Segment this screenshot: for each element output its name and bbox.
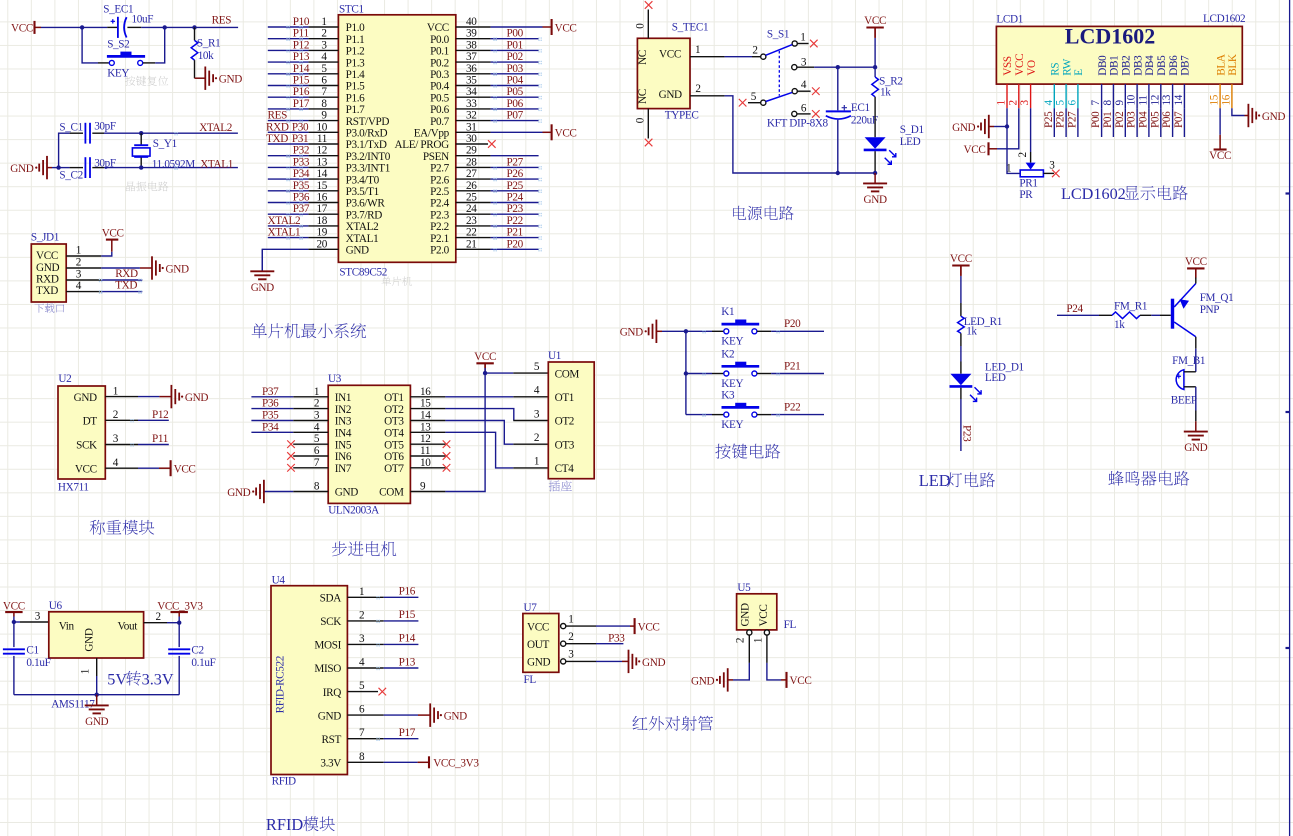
svg-text:1: 1 bbox=[534, 456, 540, 468]
node junction stepper VCC bbox=[483, 371, 487, 375]
svg-text:GND: GND bbox=[527, 657, 550, 669]
svg-text:35: 35 bbox=[466, 75, 477, 87]
svg-text:OT2: OT2 bbox=[555, 416, 574, 428]
svg-text:P20: P20 bbox=[507, 238, 524, 250]
svg-text:P16: P16 bbox=[399, 586, 416, 598]
svg-text:14: 14 bbox=[317, 168, 328, 180]
svg-text:9: 9 bbox=[321, 110, 327, 122]
svg-text:P04: P04 bbox=[1137, 111, 1149, 128]
svg-text:P25: P25 bbox=[1043, 111, 1055, 128]
label 单片机最小系统 (MCU minimum system) bbox=[252, 323, 267, 338]
svg-text:EC1: EC1 bbox=[851, 102, 870, 114]
svg-text:U1: U1 bbox=[548, 350, 561, 362]
capacitor C2 0.1uF bbox=[178, 623, 180, 647]
svg-text:VCC: VCC bbox=[75, 463, 97, 475]
ground GND (MCU pin20) bbox=[261, 249, 263, 271]
svg-text:GND: GND bbox=[1262, 111, 1285, 123]
svg-text:6: 6 bbox=[359, 704, 365, 716]
svg-text:FM_Q1: FM_Q1 bbox=[1200, 292, 1234, 304]
svg-text:P3.2/INT0: P3.2/INT0 bbox=[346, 151, 391, 163]
svg-text:XTAL1: XTAL1 bbox=[268, 227, 301, 239]
wire LCD pin 6 net P27 bbox=[1077, 108, 1079, 137]
svg-text:ALE/ PROG: ALE/ PROG bbox=[395, 139, 450, 151]
svg-text:P06: P06 bbox=[1161, 111, 1173, 128]
svg-text:4: 4 bbox=[534, 385, 540, 397]
wire K3 net P22 bbox=[757, 414, 771, 416]
wire S_C1 to XTAL2 node bbox=[92, 132, 104, 134]
label 电源电路 (power circuit) bbox=[733, 206, 746, 220]
capacitor S_C1 30pF bbox=[84, 123, 86, 144]
svg-text:P2.6: P2.6 bbox=[430, 174, 450, 186]
svg-text:KEY: KEY bbox=[721, 336, 743, 348]
pushbutton K3 KEY bbox=[686, 414, 712, 416]
svg-text:IN5: IN5 bbox=[335, 439, 352, 451]
svg-text:P34: P34 bbox=[293, 168, 310, 180]
svg-text:OT1: OT1 bbox=[384, 392, 403, 404]
ground GND (LCD) bbox=[988, 115, 990, 138]
U7 pin2 wire net P33 bbox=[566, 643, 596, 645]
svg-text:3: 3 bbox=[76, 268, 82, 280]
svg-text:XTAL1: XTAL1 bbox=[346, 233, 379, 245]
svg-text:COM: COM bbox=[379, 487, 404, 499]
svg-text:19: 19 bbox=[317, 227, 328, 239]
svg-text:P07: P07 bbox=[1173, 111, 1185, 128]
svg-text:P36: P36 bbox=[262, 398, 279, 410]
svg-text:P16: P16 bbox=[293, 86, 310, 98]
svg-text:RFID: RFID bbox=[272, 775, 296, 787]
svg-text:VCC: VCC bbox=[659, 49, 681, 61]
svg-text:P23: P23 bbox=[961, 425, 973, 442]
svg-text:IN3: IN3 bbox=[335, 416, 352, 428]
svg-text:2: 2 bbox=[695, 83, 701, 95]
switch S_S1 pole 6 bbox=[792, 111, 797, 116]
resistor S_R2 1k bbox=[874, 67, 876, 77]
svg-text:P3.4/T0: P3.4/T0 bbox=[346, 174, 380, 186]
svg-text:XTAL2: XTAL2 bbox=[199, 122, 232, 134]
svg-text:U2: U2 bbox=[58, 373, 71, 385]
svg-text:RXD: RXD bbox=[266, 121, 289, 133]
wire GND to node bbox=[47, 167, 52, 169]
svg-text:15: 15 bbox=[420, 398, 431, 410]
wire LCD pin2 VCC bbox=[997, 108, 1019, 149]
svg-text:5: 5 bbox=[534, 361, 540, 373]
svg-text:VCC: VCC bbox=[950, 253, 972, 265]
svg-text:23: 23 bbox=[466, 215, 477, 227]
svg-text:12: 12 bbox=[420, 433, 431, 445]
svg-text:GND: GND bbox=[227, 487, 250, 499]
svg-text:4: 4 bbox=[801, 79, 807, 91]
svg-text:P36: P36 bbox=[293, 192, 310, 204]
svg-text:GND: GND bbox=[620, 327, 643, 339]
svg-text:38: 38 bbox=[466, 39, 477, 51]
power port VCC (buzzer) bbox=[1187, 267, 1204, 269]
svg-text:1: 1 bbox=[113, 385, 119, 397]
svg-text:3: 3 bbox=[534, 408, 540, 420]
svg-text:P14: P14 bbox=[399, 633, 416, 645]
svg-text:XTAL2: XTAL2 bbox=[268, 215, 301, 227]
ground GND (LCD backlight) bbox=[1247, 104, 1249, 127]
svg-text:3: 3 bbox=[1019, 100, 1031, 106]
wire U2 pin3 net P11 bbox=[138, 444, 169, 446]
ground GND (reset) bbox=[204, 67, 206, 90]
svg-text:12: 12 bbox=[317, 145, 328, 157]
svg-text:25: 25 bbox=[466, 192, 477, 204]
svg-text:11.0592M: 11.0592M bbox=[152, 158, 195, 170]
svg-text:P00: P00 bbox=[1090, 111, 1102, 128]
wire U2 pin2 net P12 bbox=[138, 419, 169, 421]
wire node down to S_C2 bbox=[59, 167, 70, 169]
svg-text:20: 20 bbox=[317, 238, 328, 250]
svg-text:3: 3 bbox=[568, 649, 574, 661]
svg-text:IN1: IN1 bbox=[335, 392, 351, 404]
svg-text:DB7: DB7 bbox=[1180, 55, 1192, 76]
svg-text:P01: P01 bbox=[1102, 112, 1114, 128]
svg-text:BLK: BLK bbox=[1227, 54, 1239, 76]
S_JD1 pin 1 wire to VCC bbox=[66, 255, 101, 257]
svg-text:RST/VPD: RST/VPD bbox=[346, 116, 390, 128]
svg-text:RES: RES bbox=[268, 110, 288, 122]
svg-text:PR: PR bbox=[1019, 189, 1033, 201]
svg-text:27: 27 bbox=[466, 168, 477, 180]
svg-text:IN2: IN2 bbox=[335, 404, 351, 416]
svg-text:6: 6 bbox=[314, 445, 320, 457]
svg-text:GND: GND bbox=[1184, 442, 1207, 454]
wire net RES bbox=[195, 26, 239, 28]
svg-text:RFID: RFID bbox=[266, 815, 304, 834]
svg-text:VCC_3V3: VCC_3V3 bbox=[157, 600, 203, 612]
svg-text:30pF: 30pF bbox=[94, 121, 116, 133]
resistor LED_R1 1k bbox=[960, 303, 962, 316]
svg-text:GND: GND bbox=[642, 657, 665, 669]
wire OT3 to U1 pin2 bbox=[445, 421, 513, 445]
wire S_S2 to right branch up bbox=[143, 62, 155, 64]
svg-text:39: 39 bbox=[466, 28, 477, 40]
svg-text:IN6: IN6 bbox=[335, 451, 352, 463]
ground GND (keys) bbox=[655, 320, 657, 343]
svg-text:2: 2 bbox=[314, 398, 320, 410]
buzzer FM_B1 BEEP bbox=[1176, 370, 1184, 390]
svg-text:KEY: KEY bbox=[721, 419, 743, 431]
svg-text:7: 7 bbox=[1090, 100, 1102, 106]
svg-text:KEY: KEY bbox=[107, 67, 129, 79]
svg-text:FM_B1: FM_B1 bbox=[1172, 355, 1205, 367]
svg-text:10: 10 bbox=[317, 121, 328, 133]
svg-text:13: 13 bbox=[420, 421, 431, 433]
wire S_C2 to XTAL1 node bbox=[92, 167, 104, 169]
svg-text:OT7: OT7 bbox=[384, 463, 404, 475]
label 红外对射管 (IR sensor) bbox=[632, 716, 647, 730]
svg-text:S_JD1: S_JD1 bbox=[31, 231, 59, 243]
svg-text:LED: LED bbox=[985, 372, 1006, 384]
ground GND (buzzer) bbox=[1184, 431, 1208, 433]
svg-text:VCC: VCC bbox=[427, 22, 449, 34]
svg-text:FM_R1: FM_R1 bbox=[1114, 301, 1147, 313]
svg-text:P21: P21 bbox=[784, 360, 800, 372]
wire LCD pin 11 net P04 bbox=[1148, 108, 1150, 137]
S_TEC1 pin 2 wire GND rail bbox=[690, 95, 725, 97]
svg-text:P1.5: P1.5 bbox=[346, 81, 366, 93]
switch S_S1 pole 3 bbox=[792, 65, 797, 70]
wire OT2 to U1 pin3 bbox=[445, 409, 513, 421]
svg-text:IN7: IN7 bbox=[335, 463, 352, 475]
svg-text:P31: P31 bbox=[292, 133, 308, 145]
svg-text:COM: COM bbox=[555, 368, 580, 380]
svg-text:1k: 1k bbox=[1114, 319, 1125, 331]
svg-text:OT3: OT3 bbox=[555, 439, 575, 451]
label 称重模块 (weighing module) bbox=[90, 520, 105, 535]
wire left branch down to S_S2 bbox=[82, 27, 98, 63]
svg-text:18: 18 bbox=[317, 215, 328, 227]
svg-text:PSEN: PSEN bbox=[423, 151, 449, 163]
ground GND (regulator) bbox=[96, 695, 98, 706]
svg-text:9: 9 bbox=[420, 480, 426, 492]
svg-text:11: 11 bbox=[317, 133, 327, 145]
svg-text:DT: DT bbox=[83, 416, 98, 428]
wire LCD pin1 VSS to GND bbox=[1006, 108, 1008, 126]
wire S_R1 to GND bbox=[194, 60, 196, 78]
svg-text:5: 5 bbox=[1055, 100, 1067, 106]
svg-text:FL: FL bbox=[524, 674, 537, 686]
svg-text:VCC: VCC bbox=[1014, 54, 1026, 76]
svg-text:7: 7 bbox=[314, 457, 320, 469]
svg-text:OT1: OT1 bbox=[555, 392, 574, 404]
power port VCC (LCD backlight) bbox=[1214, 148, 1227, 150]
svg-text:P25: P25 bbox=[507, 180, 524, 192]
svg-text:GND: GND bbox=[691, 675, 714, 687]
svg-text:VSS: VSS bbox=[1002, 56, 1014, 76]
svg-text:LED: LED bbox=[900, 136, 921, 148]
svg-text:LED: LED bbox=[919, 471, 951, 490]
svg-text:1: 1 bbox=[996, 100, 1008, 106]
svg-text:FL: FL bbox=[784, 619, 797, 631]
svg-text:P02: P02 bbox=[1114, 112, 1126, 128]
node junction EC1 top bbox=[836, 65, 840, 69]
svg-text:K3: K3 bbox=[721, 389, 735, 401]
power port VCC (stepper) bbox=[476, 362, 493, 364]
svg-text:28: 28 bbox=[466, 156, 477, 168]
svg-text:P00: P00 bbox=[507, 28, 524, 40]
svg-text:2: 2 bbox=[156, 611, 162, 623]
label 插座 (socket) bbox=[549, 481, 560, 492]
svg-text:KFT DIP-8X8: KFT DIP-8X8 bbox=[767, 118, 829, 130]
svg-text:GND: GND bbox=[84, 628, 96, 651]
svg-text:1: 1 bbox=[568, 613, 574, 625]
svg-text:2: 2 bbox=[76, 256, 82, 268]
svg-text:ULN2003A: ULN2003A bbox=[328, 505, 379, 517]
svg-text:P33: P33 bbox=[293, 156, 310, 168]
svg-text:P2.7: P2.7 bbox=[430, 163, 450, 175]
svg-text:P1.1: P1.1 bbox=[346, 34, 365, 46]
label 单片机 (MCU) bbox=[381, 277, 391, 286]
svg-text:P05: P05 bbox=[1149, 111, 1161, 128]
svg-text:VCC: VCC bbox=[3, 601, 25, 613]
wire LCD pin 7 net P00 bbox=[1101, 108, 1103, 137]
svg-text:DB6: DB6 bbox=[1168, 55, 1180, 76]
svg-text:S_EC1: S_EC1 bbox=[103, 3, 133, 15]
svg-text:P1.3: P1.3 bbox=[346, 57, 366, 69]
svg-text:S_Y1: S_Y1 bbox=[153, 138, 177, 150]
svg-text:GND: GND bbox=[185, 392, 208, 404]
svg-text:VCC: VCC bbox=[36, 250, 58, 262]
U7 pin3 wire to GND bbox=[566, 660, 596, 662]
svg-text:0: 0 bbox=[635, 23, 647, 29]
svg-text:P1.2: P1.2 bbox=[346, 46, 365, 58]
svg-text:10: 10 bbox=[1126, 94, 1138, 105]
svg-text:KEY: KEY bbox=[721, 378, 743, 390]
svg-text:13: 13 bbox=[317, 156, 328, 168]
power port VCC (LED) bbox=[952, 264, 969, 266]
svg-text:P07: P07 bbox=[507, 110, 524, 122]
power port VCC (S_JD1) bbox=[106, 239, 118, 241]
power port VCC (U5) bbox=[785, 672, 787, 688]
svg-text:GND: GND bbox=[251, 282, 274, 294]
svg-text:MOSI: MOSI bbox=[314, 640, 341, 652]
svg-text:4: 4 bbox=[314, 421, 320, 433]
label 下载口 (download port) bbox=[34, 304, 43, 313]
wire node to S_EC1 bbox=[82, 26, 107, 28]
svg-text:GND: GND bbox=[85, 716, 108, 728]
svg-text:RS: RS bbox=[1050, 63, 1062, 76]
wire PR1 pin1 to GND net bbox=[1007, 127, 1020, 174]
svg-text:VCC: VCC bbox=[11, 22, 33, 34]
svg-text:S_C2: S_C2 bbox=[59, 170, 82, 182]
svg-text:P03: P03 bbox=[1126, 111, 1138, 128]
ground GND (S_JD1) bbox=[151, 256, 153, 279]
svg-text:P04: P04 bbox=[507, 75, 524, 87]
svg-text:STC89C52: STC89C52 bbox=[339, 266, 387, 278]
wire LCD pin 13 net P06 bbox=[1172, 108, 1174, 137]
svg-text:40: 40 bbox=[466, 16, 477, 28]
svg-text:37: 37 bbox=[466, 51, 477, 63]
svg-text:NC: NC bbox=[637, 50, 649, 65]
svg-text:17: 17 bbox=[317, 203, 328, 215]
svg-text:P37: P37 bbox=[293, 203, 310, 215]
wire pin3 to VCC rail bbox=[814, 66, 875, 68]
svg-text:2: 2 bbox=[1007, 100, 1019, 106]
svg-text:P22: P22 bbox=[784, 402, 800, 414]
wire S_R2 to LED bbox=[874, 97, 876, 137]
wire LCD pin3 VO to PR1 wiper bbox=[1030, 108, 1032, 152]
svg-text:P1.7: P1.7 bbox=[346, 104, 366, 116]
svg-text:2: 2 bbox=[1017, 152, 1029, 158]
svg-text:STC1: STC1 bbox=[339, 4, 364, 16]
svg-text:Vin: Vin bbox=[59, 621, 75, 633]
wire LED to GND rail bbox=[874, 151, 876, 173]
svg-text:TYPEC: TYPEC bbox=[665, 109, 699, 121]
svg-text:P3.6/WR: P3.6/WR bbox=[346, 198, 386, 210]
capacitor EC1 220uF electrolytic bbox=[837, 67, 839, 110]
svg-text:4: 4 bbox=[113, 457, 119, 469]
svg-text:22: 22 bbox=[466, 227, 477, 239]
svg-text:1: 1 bbox=[76, 244, 82, 256]
wire LED_D1 net P23 bbox=[960, 388, 962, 399]
svg-text:RFID-RC522: RFID-RC522 bbox=[275, 656, 287, 713]
svg-text:1: 1 bbox=[695, 44, 701, 56]
svg-text:P0.2: P0.2 bbox=[430, 57, 449, 69]
svg-text:VCC: VCC bbox=[102, 227, 124, 239]
svg-text:P34: P34 bbox=[262, 421, 279, 433]
svg-text:16: 16 bbox=[317, 192, 328, 204]
svg-text:GND: GND bbox=[166, 263, 189, 275]
svg-text:S_D1: S_D1 bbox=[900, 124, 924, 136]
svg-text:P3.5/T1: P3.5/T1 bbox=[346, 186, 379, 198]
svg-text:30: 30 bbox=[466, 133, 477, 145]
ground GND (U4) bbox=[429, 703, 431, 727]
svg-text:SDA: SDA bbox=[320, 593, 342, 605]
svg-text:26: 26 bbox=[466, 180, 477, 192]
svg-text:U4: U4 bbox=[272, 574, 286, 586]
node junction crystal left bbox=[56, 165, 60, 169]
key bus vertical wire bbox=[685, 331, 687, 414]
svg-text:4: 4 bbox=[76, 280, 82, 292]
wire U3 COM to VCC rail bbox=[445, 373, 485, 491]
svg-text:DB1: DB1 bbox=[1109, 56, 1121, 76]
svg-text:P2.2: P2.2 bbox=[430, 221, 449, 233]
svg-text:1: 1 bbox=[752, 638, 764, 644]
sheet right border bbox=[1289, 0, 1291, 836]
wire U2 pin4 to VCC bbox=[138, 467, 159, 469]
power port VCC (U2) bbox=[170, 460, 172, 476]
label 按键电路 (key circuit) bbox=[715, 444, 730, 459]
svg-text:2: 2 bbox=[359, 609, 365, 621]
svg-text:1: 1 bbox=[321, 16, 327, 28]
svg-text:32: 32 bbox=[466, 110, 477, 122]
node junction Vin bbox=[12, 620, 16, 624]
transistor FM_Q1 PNP bbox=[1171, 299, 1174, 329]
svg-text:0.1uF: 0.1uF bbox=[26, 657, 50, 669]
svg-text:10k: 10k bbox=[198, 50, 214, 62]
svg-text:P35: P35 bbox=[262, 410, 279, 422]
svg-text:GND: GND bbox=[444, 711, 467, 723]
wire LED_R1 to LED_D1 bbox=[960, 333, 962, 346]
svg-text:P06: P06 bbox=[507, 98, 524, 110]
svg-text:P1.0: P1.0 bbox=[346, 22, 366, 34]
svg-text:13: 13 bbox=[1161, 94, 1173, 105]
svg-text:220uF: 220uF bbox=[851, 114, 878, 126]
node junction VCC rail bbox=[873, 65, 877, 69]
capacitor C1 0.1uF bbox=[13, 622, 15, 647]
svg-text:E: E bbox=[1073, 69, 1085, 76]
svg-text:1: 1 bbox=[314, 386, 320, 398]
svg-text:3: 3 bbox=[359, 633, 365, 645]
U5 pin 1 VCC wire bbox=[764, 630, 769, 635]
svg-text:P13: P13 bbox=[293, 51, 310, 63]
svg-text:VCC: VCC bbox=[864, 15, 886, 27]
svg-text:DB2: DB2 bbox=[1121, 56, 1133, 76]
svg-text:GND: GND bbox=[36, 262, 59, 274]
svg-text:P0.1: P0.1 bbox=[430, 46, 449, 58]
svg-text:P2.4: P2.4 bbox=[430, 198, 450, 210]
svg-text:OUT: OUT bbox=[527, 639, 549, 651]
svg-text:P3.7/RD: P3.7/RD bbox=[346, 209, 383, 221]
svg-text:7: 7 bbox=[359, 727, 365, 739]
svg-text:8: 8 bbox=[321, 98, 327, 110]
capacitor S_C2 30pF bbox=[84, 157, 86, 178]
svg-text:33: 33 bbox=[466, 98, 477, 110]
svg-text:P0.7: P0.7 bbox=[430, 116, 450, 128]
svg-text:7: 7 bbox=[321, 86, 327, 98]
svg-text:5: 5 bbox=[359, 680, 365, 692]
switch S_S1 pole 4/5 bbox=[792, 89, 797, 94]
svg-text:P1.6: P1.6 bbox=[346, 92, 366, 104]
svg-text:P26: P26 bbox=[1055, 111, 1067, 128]
ground GND (U7) bbox=[628, 650, 630, 673]
svg-text:NC: NC bbox=[637, 89, 649, 104]
svg-text:P32: P32 bbox=[293, 145, 309, 157]
svg-text:3: 3 bbox=[321, 39, 327, 51]
svg-text:P0.0: P0.0 bbox=[430, 34, 450, 46]
svg-text:SCK: SCK bbox=[320, 616, 341, 628]
